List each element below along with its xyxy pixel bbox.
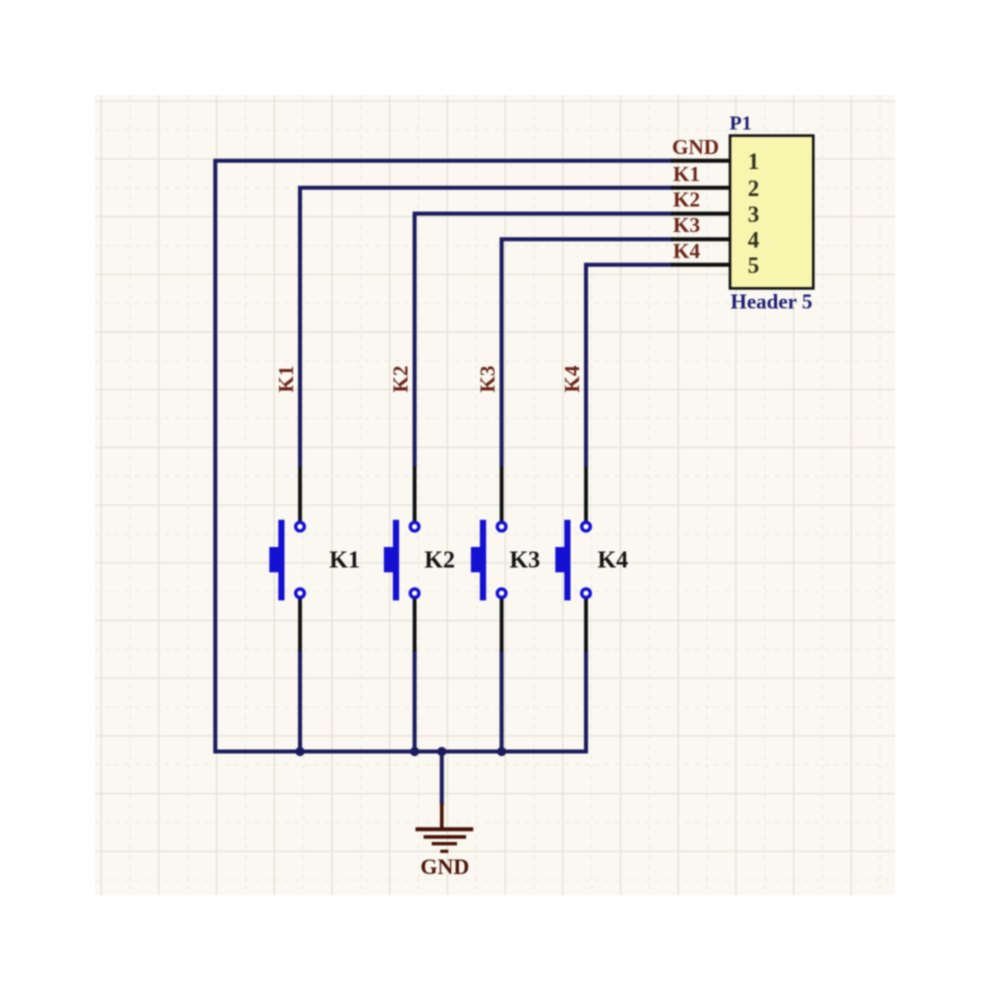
svg-text:4: 4 [748, 228, 760, 253]
header P1 pin 4 stub [671, 237, 730, 241]
pushbutton K2 actuator bar [393, 520, 399, 601]
wire K2 net: pin3 horizontal + vertical down to button K2 [415, 212, 673, 467]
junction dot K3/bus [497, 747, 506, 756]
svg-text:5: 5 [748, 253, 760, 278]
pushbutton K1 actuator bar [278, 520, 284, 601]
header P1 pin 1 stub [671, 159, 730, 163]
wire button K1 bottom to bus [298, 650, 302, 752]
header P1 pin 3 stub [671, 212, 730, 216]
pushbutton K4 button body [555, 547, 568, 572]
wire GND stub down from bus [440, 752, 444, 806]
wire button K2 bottom to bus [413, 650, 417, 752]
pushbutton K2 top terminal [410, 522, 419, 531]
pushbutton K3 actuator bar [480, 520, 486, 601]
svg-text:K3: K3 [673, 213, 700, 237]
svg-text:K2: K2 [389, 366, 413, 393]
svg-text:3: 3 [748, 202, 760, 227]
svg-text:2: 2 [748, 176, 760, 201]
junction dot K1/bus [295, 747, 304, 756]
pushbutton K1 button body [269, 547, 282, 572]
svg-text:K1: K1 [329, 548, 360, 574]
svg-text:K4: K4 [560, 365, 584, 392]
pushbutton K4 bottom terminal [582, 589, 591, 598]
wire K1 net: pin2 horizontal + vertical down to button K1 [300, 186, 673, 467]
pushbutton K1 pin wires (black) [298, 467, 302, 652]
wire button K3 bottom to bus [500, 650, 504, 752]
wire K4 net: pin5 horizontal + vertical down to button K4 [586, 263, 673, 467]
svg-text:GND: GND [420, 854, 469, 879]
ground symbol bar 1 [416, 827, 474, 831]
pushbutton K3 pin wires (black) [500, 467, 504, 652]
svg-text:K3: K3 [476, 366, 500, 393]
ground symbol bar 2 [424, 835, 467, 839]
ground symbol bar 4 [440, 850, 448, 853]
svg-text:K4: K4 [673, 239, 700, 263]
pushbutton K4 pin wires (black) [584, 467, 588, 652]
pushbutton K4 actuator bar [564, 520, 570, 601]
svg-text:GND: GND [672, 135, 719, 159]
pushbutton K4 top terminal [582, 522, 591, 531]
header P1 pin 2 stub [671, 186, 730, 190]
wire GND net: pin1 horizontal run, left vertical, bottom bus [213, 159, 673, 754]
pushbutton K1 top terminal [296, 522, 305, 531]
svg-text:K2: K2 [424, 548, 455, 574]
svg-text:K4: K4 [598, 548, 629, 574]
svg-text:Header 5: Header 5 [731, 290, 813, 314]
pushbutton K1 bottom terminal [296, 589, 305, 598]
svg-text:K2: K2 [673, 188, 700, 212]
junction dot GND stub/bus [437, 747, 446, 756]
pushbutton K2 pin wires (black) [413, 467, 417, 652]
ground symbol stem [440, 803, 444, 830]
header P1 pin 5 stub [671, 263, 730, 267]
pushbutton K3 bottom terminal [497, 589, 506, 598]
svg-text:K1: K1 [274, 366, 298, 393]
connector P1 body [730, 136, 813, 289]
junction dot K2/bus [410, 747, 419, 756]
svg-text:P1: P1 [730, 113, 752, 135]
svg-text:K1: K1 [673, 162, 700, 186]
pushbutton K2 bottom terminal [410, 589, 419, 598]
svg-text:K3: K3 [510, 548, 541, 574]
svg-text:1: 1 [748, 149, 760, 174]
ground symbol bar 3 [432, 842, 457, 845]
pushbutton K2 button body [384, 547, 397, 572]
pushbutton K3 top terminal [497, 522, 506, 531]
wire button K4 bottom to bus [584, 650, 588, 754]
pushbutton K3 button body [471, 547, 484, 572]
wire K3 net: pin4 horizontal + vertical down to button K3 [502, 237, 673, 467]
